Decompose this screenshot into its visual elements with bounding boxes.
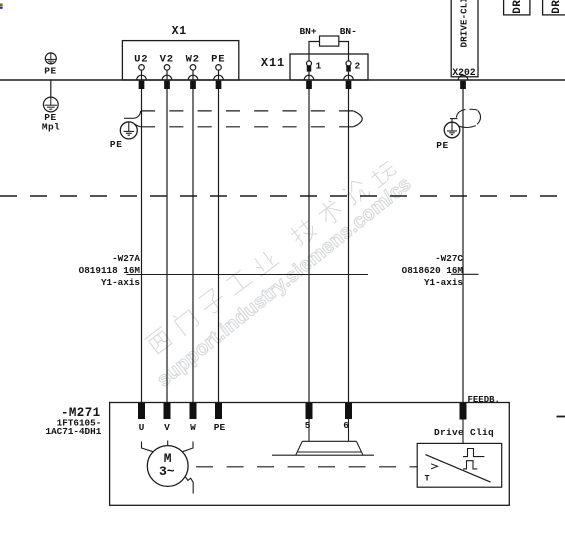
svg-text:T: T [424, 474, 429, 484]
svg-text:O818620 16M: O818620 16M [402, 265, 464, 276]
wire brake lead 5 [308, 419, 310, 441]
encoder pulse trace A [463, 449, 484, 457]
wire brake conductor 2 [348, 89, 350, 403]
connector box DRIVE-CLIQ X202 [451, 0, 478, 77]
terminal PE of motor [215, 403, 222, 419]
svg-text:3~: 3~ [159, 464, 175, 479]
svg-text:-W27C: -W27C [435, 253, 463, 264]
svg-text:U: U [139, 422, 145, 433]
svg-text:FEEDB.: FEEDB. [468, 395, 500, 405]
terminal V2 [162, 65, 172, 89]
svg-text:V2: V2 [160, 53, 174, 65]
svg-text:Drive Cliq: Drive Cliq [434, 427, 494, 438]
terminal V of motor [164, 403, 171, 419]
svg-text:1AC71-4DH1: 1AC71-4DH1 [46, 426, 102, 437]
svg-text:V: V [164, 422, 170, 433]
wire encoder lead [462, 420, 464, 444]
svg-text:1: 1 [316, 60, 322, 71]
wire screen clamp hook right [450, 109, 481, 127]
terminal box X1 [122, 41, 238, 80]
svg-text:PE: PE [214, 422, 226, 433]
wire cable screen dashed line upper [141, 110, 353, 112]
wire screen clamp hook left [124, 111, 142, 127]
wire PE conductor [218, 89, 220, 403]
svg-text:W2: W2 [186, 53, 200, 65]
terminal W of motor [190, 403, 197, 419]
ground PE Mpl symbol [43, 80, 58, 112]
svg-text:2: 2 [355, 60, 361, 71]
wire V phase [166, 89, 168, 403]
pin 2 of X11 [344, 61, 354, 89]
svg-text:DRIVE-CLIQ: DRIVE-CLIQ [512, 0, 524, 14]
terminal W2 [188, 65, 198, 89]
svg-text:O819118 16M: O819118 16M [79, 265, 141, 276]
ground PE screen clamp left [120, 122, 137, 139]
wire temperature sensor lead [185, 476, 193, 494]
logo fragment top-left [0, 4, 3, 9]
svg-text:Y1-axis: Y1-axis [424, 277, 463, 288]
terminal FEEDB of encoder [460, 403, 467, 420]
svg-text:Mpl: Mpl [42, 122, 60, 133]
brake Y1 trapezoid symbol [272, 441, 374, 455]
terminal PE of X1 [214, 65, 224, 89]
connector small box top-right B [543, 0, 565, 15]
svg-text:PE: PE [44, 65, 57, 76]
wire encoder drive-cliq cable [462, 89, 464, 403]
wire cut-off element far right [557, 416, 565, 418]
terminal 6 of brake [345, 403, 352, 419]
wire W phase [192, 89, 194, 403]
wire cable screen closing arc [353, 111, 362, 127]
wire brake conductor 1 [308, 89, 310, 403]
svg-text:U2: U2 [134, 53, 148, 65]
pin 1 of X11 [304, 61, 314, 89]
wire U phase [141, 89, 143, 403]
encoder diagonal line [425, 455, 490, 483]
svg-text:DRIVE-CLIQ: DRIVE-CLIQ [458, 0, 469, 48]
wire brake lead 6 [348, 419, 350, 441]
terminal U of motor [138, 403, 145, 419]
wire BN+ lead [309, 42, 320, 61]
wire motor lead left [142, 442, 154, 452]
wire motor lead middle [167, 441, 169, 446]
svg-text:PE: PE [211, 53, 225, 65]
svg-text:BN-: BN- [340, 26, 357, 37]
svg-text:Y1-axis: Y1-axis [101, 277, 140, 288]
svg-text:-W27A: -W27A [112, 253, 140, 264]
connector box X11 [290, 54, 368, 80]
wire cable leader line left W27A [126, 274, 368, 276]
svg-text:5: 5 [305, 420, 311, 431]
terminal of X202 at bus [458, 75, 468, 89]
svg-text:PE: PE [110, 139, 123, 150]
motor M 3~ circle [147, 446, 188, 487]
wire : main PE bus horizontal line [0, 79, 565, 81]
wire : long dashed separator line [0, 195, 565, 197]
connector small box top-right A [504, 0, 530, 15]
svg-text:BN+: BN+ [299, 26, 316, 37]
WATERMARK [143, 156, 415, 391]
encoder arrow mark [431, 464, 438, 469]
wire cable screen dashed line lower [141, 126, 353, 128]
resistor brake coil symbol [320, 36, 339, 46]
encoder pulse trace B [463, 461, 477, 469]
wire dashed shaft link motor to encoder [196, 466, 417, 468]
motor box M271 [110, 403, 510, 506]
svg-text:X11: X11 [261, 56, 285, 70]
terminal 5 of brake [306, 403, 313, 419]
wire BN- lead [339, 42, 349, 61]
svg-text:support.industry.siemens.com/c: support.industry.siemens.com/cs [153, 173, 416, 392]
terminal U2 [137, 65, 147, 89]
ground PE symbol top-left [45, 53, 56, 64]
wire motor lead right [182, 442, 193, 452]
svg-text:DRIVE-CLIQ: DRIVE-CLIQ [551, 0, 563, 14]
svg-text:PE: PE [436, 140, 449, 151]
svg-text:W: W [190, 422, 196, 433]
svg-text:X1: X1 [172, 25, 187, 38]
ground PE screen clamp right [444, 119, 460, 138]
wire cable leader line right W27C [451, 273, 479, 275]
encoder box Drive Cliq [417, 443, 502, 487]
svg-text:6: 6 [343, 420, 349, 431]
svg-text:X202: X202 [452, 67, 475, 78]
